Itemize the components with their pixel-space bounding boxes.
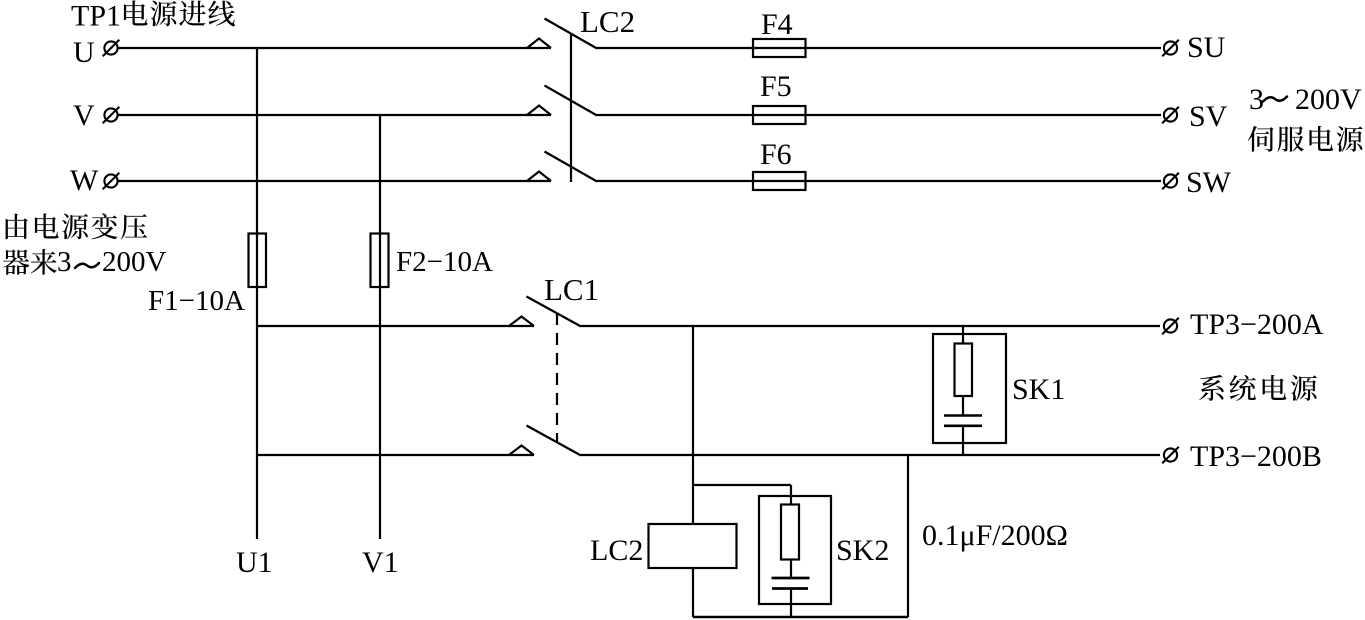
wire SK1 stem top <box>962 326 964 415</box>
wire U phase right <box>597 47 1161 49</box>
wire right loop vertical <box>907 455 909 617</box>
suppressor SK1 box <box>933 334 1006 443</box>
wire bottom loop <box>693 616 908 619</box>
fuse F5 <box>753 106 806 124</box>
terminal TP3-200B <box>1162 447 1179 464</box>
svg-text:3: 3 <box>1249 83 1264 116</box>
wire W phase right <box>597 180 1161 182</box>
terminal U <box>103 40 120 57</box>
wire SK1 stem bottom <box>962 426 964 455</box>
svg-text:200V: 200V <box>102 246 167 278</box>
wire TP3-200B right <box>581 454 1160 456</box>
label you-dianyuan-bianya line1 <box>6 213 147 239</box>
suppressor SK2 box <box>759 496 831 604</box>
svg-text:0.1μF/200Ω: 0.1μF/200Ω <box>922 519 1068 552</box>
label xitong-dianyuan (system power) <box>1199 375 1317 401</box>
svg-text:F6: F6 <box>760 138 792 171</box>
contactor LC2 pole V chevron <box>527 106 551 116</box>
svg-text:F2−10A: F2−10A <box>396 246 493 278</box>
contactor LC2 pole U blade <box>545 19 598 49</box>
wire V phase right <box>597 114 1161 116</box>
svg-text:V: V <box>73 99 95 132</box>
svg-text:V1: V1 <box>362 546 399 579</box>
fuse F1 <box>249 234 267 288</box>
svg-text:SV: SV <box>1189 100 1228 133</box>
contactor LC1 pole A chevron <box>509 317 534 327</box>
wire SK2 branch horizontal <box>693 484 791 486</box>
svg-text:TP3−200B: TP3−200B <box>1190 440 1322 473</box>
svg-text:F4: F4 <box>761 8 793 41</box>
wire U1 drop <box>256 48 258 539</box>
wire TP3-200A right <box>581 325 1160 327</box>
terminal V <box>103 107 120 124</box>
capacitor SK2 <box>772 578 810 589</box>
svg-text:F1−10A: F1−10A <box>148 285 245 317</box>
contactor LC2 pole U chevron <box>527 39 551 49</box>
svg-text:LC2: LC2 <box>590 534 643 567</box>
fuse F2 <box>371 234 389 288</box>
contactor LC1 pole A blade <box>527 297 582 327</box>
label dianyuan-jinxian (power incoming) <box>124 0 235 26</box>
svg-text:SK1: SK1 <box>1012 373 1065 406</box>
wire TP3-200B left <box>257 454 534 456</box>
wire SK2 stem bottom <box>790 589 792 618</box>
svg-text:TP1: TP1 <box>71 0 121 33</box>
contactor LC1 pole B chevron <box>509 446 534 456</box>
svg-text:TP3−200A: TP3−200A <box>1190 308 1324 341</box>
wire SK2 stem top <box>790 485 792 578</box>
wire W phase left <box>118 180 551 182</box>
label sifu-dianyuan (servo power) <box>1248 126 1363 152</box>
svg-text:200V: 200V <box>1295 83 1362 116</box>
terminal SU <box>1162 40 1179 57</box>
svg-text:U1: U1 <box>236 546 273 579</box>
wire TP3-200A left <box>257 325 534 327</box>
resistor SK1 <box>955 344 973 397</box>
svg-text:W: W <box>70 164 99 197</box>
capacitor SK1 <box>944 416 982 426</box>
terminal SW <box>1162 173 1179 190</box>
contactor LC2 pole W blade <box>545 152 598 182</box>
wire V1 drop <box>379 115 381 539</box>
terminal TP3-200A <box>1162 318 1179 335</box>
contactor LC2 pole V blade <box>545 86 598 116</box>
contactor LC2 mechanical link <box>570 34 572 182</box>
resistor SK2 <box>781 505 799 560</box>
label qilai line2 <box>3 249 57 275</box>
contactor LC2 pole W chevron <box>527 172 551 182</box>
terminal SV <box>1162 107 1179 124</box>
svg-text:SW: SW <box>1186 166 1232 199</box>
svg-text:3: 3 <box>57 246 72 278</box>
svg-text:LC2: LC2 <box>580 4 635 39</box>
svg-text:F5: F5 <box>760 70 792 103</box>
wire V phase left <box>118 114 551 116</box>
wire U phase left <box>118 47 551 49</box>
fuse F6 <box>753 172 806 190</box>
terminal W <box>103 173 120 190</box>
coil LC2 <box>649 524 737 568</box>
svg-text:SU: SU <box>1187 31 1226 64</box>
svg-text:SK2: SK2 <box>836 534 889 567</box>
svg-text:U: U <box>73 36 95 69</box>
contactor LC1 dashed mechanical link <box>556 313 558 442</box>
svg-text:LC1: LC1 <box>544 272 599 307</box>
contactor LC1 pole B blade <box>527 426 582 456</box>
wire LC2 coil branch vertical <box>692 326 694 617</box>
fuse F4 <box>753 39 806 57</box>
